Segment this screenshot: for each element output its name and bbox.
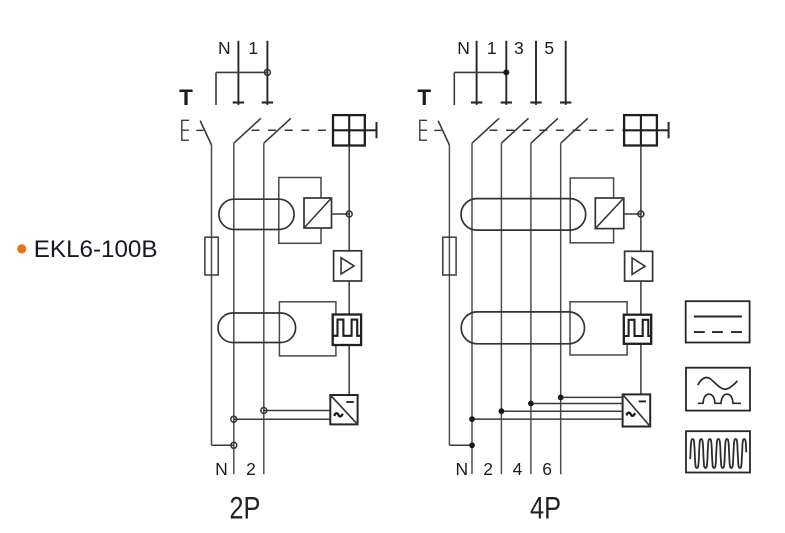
svg-text:N: N [215,459,228,479]
svg-text:N: N [457,38,470,58]
svg-text:N: N [455,459,468,479]
svg-text:4P: 4P [530,489,561,525]
svg-text:5: 5 [544,38,554,58]
svg-text:2P: 2P [229,489,260,525]
svg-text:N: N [218,38,231,58]
svg-text:3: 3 [514,38,524,58]
svg-text:4: 4 [513,459,523,479]
svg-text:6: 6 [542,459,552,479]
svg-text:2: 2 [246,459,256,479]
svg-text:1: 1 [248,38,258,58]
svg-text:T: T [179,85,193,110]
svg-text:T: T [417,85,431,110]
svg-text:EKL6-100B: EKL6-100B [34,236,158,263]
svg-text:2: 2 [483,459,493,479]
svg-text:1: 1 [487,38,497,58]
